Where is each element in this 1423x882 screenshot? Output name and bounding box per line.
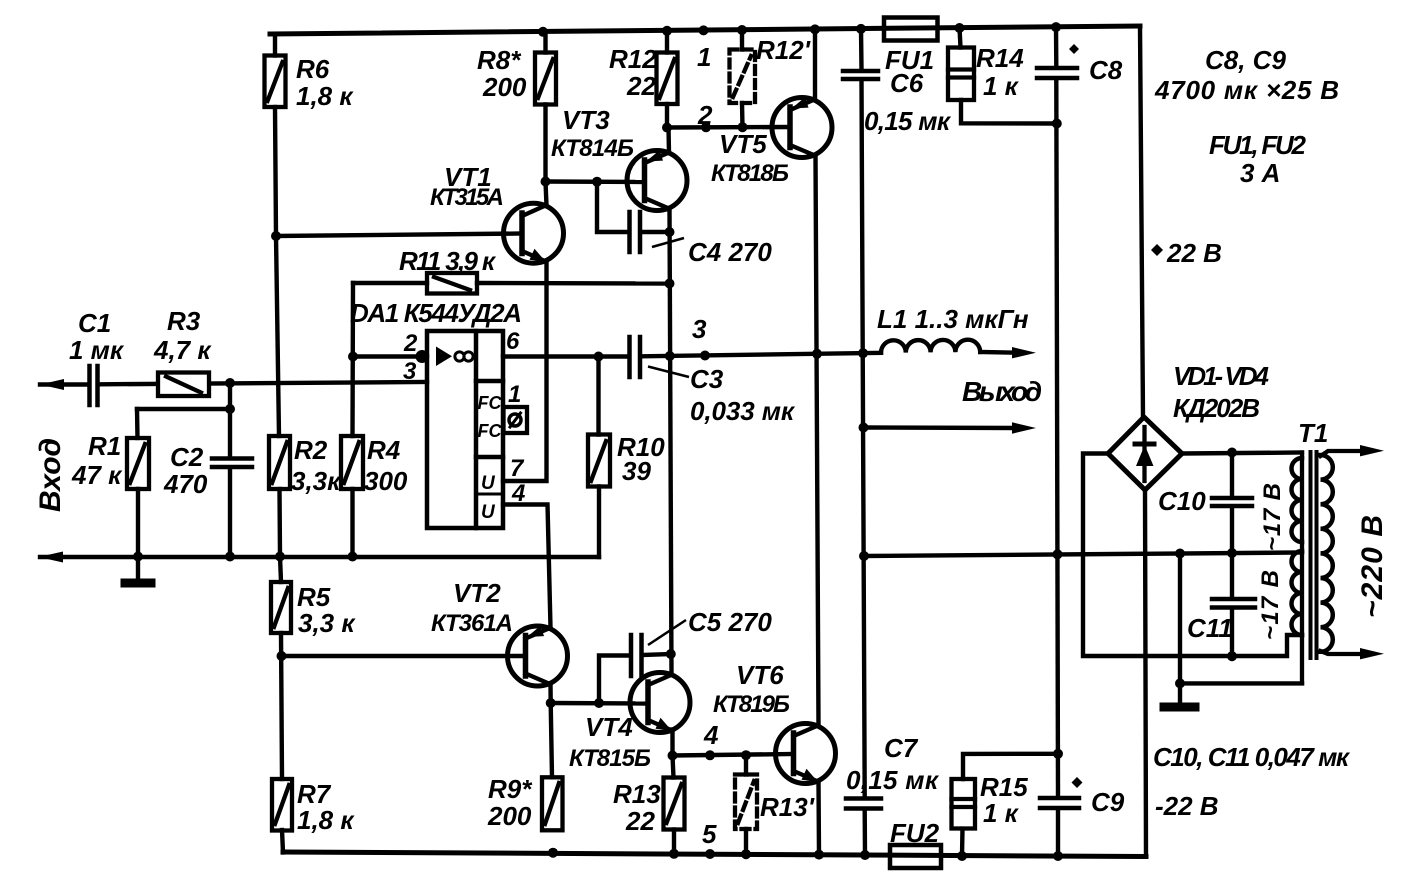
wire DA1 pin2 line — [353, 354, 427, 358]
transistor VT2 — [508, 626, 568, 686]
wire DA1 pin7 to VT1 emitter — [503, 262, 547, 481]
svg-text:R13: R13 — [613, 779, 661, 809]
svg-text:VD1- VD4: VD1- VD4 — [1173, 361, 1270, 391]
wire bridge bottom to -22V bottom rail corner — [1145, 490, 1146, 857]
svg-text:3 А: 3 А — [1240, 158, 1280, 188]
transistor VT1 — [504, 203, 564, 263]
svg-text:4700 мк ×25 В: 4700 мк ×25 В — [1154, 75, 1339, 105]
svg-text:39: 39 — [622, 456, 651, 486]
transformer T1 primary winding 220V — [1321, 455, 1333, 652]
svg-text:КТ814Б: КТ814Б — [551, 135, 634, 162]
junction dots VT4 base node — [546, 698, 556, 708]
svg-text:1: 1 — [508, 381, 521, 408]
svg-text:FU2: FU2 — [890, 818, 940, 848]
svg-text:C1: C1 — [78, 308, 111, 338]
op-amp DA1 box — [427, 331, 503, 528]
resistor R14 — [948, 48, 974, 101]
wire bridge right corner to secondary top — [1182, 453, 1302, 454]
wire VT3 collector to VT4 collector vertical — [670, 209, 672, 675]
wire R1 branch line — [137, 407, 230, 411]
resistor R10 — [588, 435, 610, 487]
capacitor C2 — [212, 459, 252, 468]
junction dots output line — [594, 352, 604, 362]
resistor R15 — [952, 779, 976, 829]
resistor R9 — [542, 777, 563, 830]
svg-text:U: U — [481, 473, 496, 494]
wire primary top lead — [1321, 451, 1363, 456]
svg-text:-22 В: -22 В — [1155, 791, 1219, 821]
wire C7 bottom stub to rail — [863, 811, 868, 856]
resistor R1 — [127, 438, 149, 489]
svg-text:R6: R6 — [296, 54, 330, 84]
junction dot input node — [225, 378, 235, 388]
svg-text:22: 22 — [625, 806, 655, 836]
svg-text:C11: C11 — [1187, 613, 1233, 643]
wire R8 top stub — [543, 32, 547, 53]
svg-text:КТ819Б: КТ819Б — [713, 691, 790, 718]
wire node 2 line to VT5 base — [667, 125, 790, 130]
transformer T1 secondary winding upper ~17V — [1292, 458, 1303, 542]
transformer T1 core — [1311, 452, 1317, 658]
svg-text:C3: C3 — [690, 364, 724, 394]
capacitor C6 — [843, 71, 878, 79]
arrow input terminal — [40, 379, 64, 390]
junction dot ground branch — [1175, 678, 1185, 688]
svg-text:1 к: 1 к — [983, 71, 1020, 101]
svg-text:FC: FC — [478, 393, 503, 413]
wire ground line to winding spine — [1180, 681, 1302, 685]
wire bottom -22V rail — [283, 852, 1146, 857]
wire R13' bottom stub — [744, 829, 748, 854]
svg-text:2: 2 — [403, 330, 418, 357]
capacitor C3 — [630, 337, 641, 377]
junction dot C4 right — [665, 227, 675, 237]
capacitor C10 — [1212, 498, 1252, 506]
wire output line C3 to L1 — [642, 353, 881, 357]
wire R11 left vertical to R4 — [350, 283, 355, 436]
wire output return arrow line — [864, 425, 1014, 430]
wire C5 branch left — [599, 656, 627, 704]
wire input node down to C2 — [228, 383, 232, 457]
capacitor C11 — [1212, 599, 1255, 608]
svg-text:VT3: VT3 — [562, 105, 610, 135]
wire L1 to output arrow — [980, 350, 1014, 355]
wire R4 bottom stub — [350, 489, 354, 557]
junction dot VT2 base node — [277, 651, 287, 661]
svg-text:3: 3 — [692, 314, 707, 344]
capacitor C9 (electrolytic) — [1040, 798, 1079, 808]
resistor R3 — [158, 373, 209, 397]
wire R5 to R7 vertical with VT2 base node — [281, 633, 282, 779]
wire VT1 base line — [276, 234, 522, 237]
svg-text:470: 470 — [163, 469, 208, 499]
svg-text:5: 5 — [702, 819, 717, 849]
junction dots mid line right — [859, 551, 869, 561]
svg-text:C2: C2 — [170, 442, 204, 472]
resistor R11 — [427, 273, 477, 294]
op-amp DA1 pin1 sub-box — [504, 407, 528, 433]
resistor R12 — [657, 53, 678, 105]
transistor VT3 — [627, 150, 687, 210]
svg-text:R4: R4 — [367, 435, 401, 465]
svg-text:C7: C7 — [884, 733, 919, 763]
svg-text:1,8 к: 1,8 к — [296, 81, 354, 111]
svg-text:VT4: VT4 — [585, 712, 633, 742]
svg-text:КТ818Б: КТ818Б — [711, 160, 789, 187]
wire VT3 base line — [546, 179, 645, 184]
svg-text:FU1, FU2: FU1, FU2 — [1209, 130, 1307, 160]
svg-text:R3: R3 — [167, 306, 201, 336]
leader line C3 — [648, 367, 689, 378]
svg-text:КТ315А: КТ315А — [430, 184, 504, 211]
wire R15 bottom stub — [960, 829, 965, 856]
junction dot VT1 base — [271, 231, 281, 241]
wire R5 top stub — [280, 557, 281, 583]
transistor VT6 — [776, 724, 836, 784]
wire R2 bottom stub — [277, 489, 282, 557]
wire C10 C11 vertical lower — [1230, 610, 1234, 657]
svg-text:200: 200 — [487, 801, 532, 831]
junction dots pin2 line — [348, 352, 358, 362]
svg-text:C10, C11 0,047 мк: C10, C11 0,047 мк — [1153, 742, 1351, 772]
plus mark C8 — [1069, 44, 1079, 54]
resistor R7 — [272, 779, 292, 831]
wire R13 top stub — [673, 756, 674, 778]
wire VT5 emitter to rail — [813, 29, 817, 99]
wire R1 bottom stub — [136, 489, 140, 557]
leader line C5 — [648, 620, 686, 645]
junction dots top rail — [538, 27, 548, 37]
svg-text:22: 22 — [626, 71, 656, 101]
svg-text:R1: R1 — [88, 431, 121, 461]
svg-text:0,15 мк: 0,15 мк — [846, 765, 940, 795]
svg-text:300: 300 — [364, 466, 408, 496]
wire input line C1 to DA1 pin3 — [101, 382, 427, 384]
wire VT4 emitter to node 4 — [670, 730, 674, 756]
wire C8 C9 vertical through mid line — [1056, 80, 1058, 796]
wire C2 bottom to ground line — [228, 469, 232, 557]
junction dots bottom rail — [548, 848, 558, 858]
wire C6 C7 vertical through output nodes — [862, 81, 865, 797]
svg-text:C5 270: C5 270 — [688, 607, 772, 637]
junction dot R14 C8 — [1052, 119, 1062, 129]
svg-text:7: 7 — [510, 455, 525, 482]
resistor R5 — [271, 582, 291, 633]
capacitor C8 (electrolytic) — [1037, 68, 1077, 78]
svg-text:47 к: 47 к — [71, 460, 123, 490]
wire C10 C11 vertical middle — [1230, 508, 1234, 597]
resistor R6 — [265, 56, 286, 108]
svg-text:R9*: R9* — [488, 774, 533, 804]
arrow output L1 — [1012, 347, 1036, 358]
junction dots node 2 line — [662, 123, 672, 133]
wire R8 bottom to VT3 base node — [543, 105, 547, 182]
svg-text:22 В: 22 В — [1166, 238, 1222, 268]
svg-text:C10: C10 — [1158, 486, 1206, 516]
svg-text:1: 1 — [697, 42, 711, 72]
resistor R12' (dashed optional) — [730, 50, 756, 104]
svg-text:R13': R13' — [760, 792, 815, 822]
ground symbol under R1 — [125, 579, 151, 588]
svg-text:4: 4 — [703, 720, 719, 750]
svg-text:C4 270: C4 270 — [688, 237, 772, 267]
wire input line left of C1 — [40, 382, 87, 386]
fuse FU1 — [884, 18, 938, 41]
svg-text:0,15 мк: 0,15 мк — [864, 106, 952, 136]
svg-text:L1 1..3 мкГн: L1 1..3 мкГн — [877, 304, 1029, 334]
svg-text:C8, C9: C8, C9 — [1205, 45, 1286, 75]
wire R15 top L to C9 line — [963, 754, 1058, 779]
wire R14 bottom L to C8 line — [961, 100, 1057, 124]
op-amp DA1 amplifier symbol — [436, 347, 473, 367]
svg-text:200: 200 — [482, 72, 527, 102]
wire C8 top stub from rail — [1054, 27, 1059, 66]
wire DA1 pin4 to VT2 emitter — [503, 505, 551, 628]
svg-text:1 к: 1 к — [983, 798, 1020, 828]
svg-text:DA1 К544УД2А: DA1 К544УД2А — [350, 298, 522, 328]
svg-text:2: 2 — [697, 100, 713, 130]
svg-text:С6: С6 — [890, 68, 924, 98]
svg-text:Выход: Выход — [962, 376, 1042, 407]
wire VT6 emitter to bottom rail — [816, 782, 821, 855]
capacitor C4 — [630, 212, 641, 252]
svg-text:C8: C8 — [1089, 55, 1123, 85]
wire R6 bottom to VT1 base node — [275, 107, 276, 236]
wire R12 top stub — [665, 31, 669, 53]
svg-text:3,3 к: 3,3 к — [298, 608, 356, 638]
svg-text:R12: R12 — [609, 44, 657, 74]
resistor R2 — [269, 436, 290, 489]
wire mid ground line left — [40, 555, 599, 559]
wire R9 top stub — [551, 703, 552, 777]
wire VT2 collector to VT4 base node — [548, 685, 553, 704]
junction dot R11 right — [665, 279, 675, 289]
resistor R13 — [664, 778, 685, 830]
wire R10 top stub — [596, 357, 600, 435]
wire R12' top stub — [740, 30, 744, 50]
arrow 220V top — [1360, 445, 1384, 456]
ground symbol near transformer — [1164, 703, 1195, 712]
wire R14 top stub — [960, 28, 961, 48]
transistor VT4 — [630, 673, 690, 733]
svg-text:6: 6 — [506, 328, 520, 355]
wire bridge left corner loop to secondary bottom — [1083, 454, 1302, 657]
arrow 220V bottom — [1360, 648, 1384, 659]
wire C9 bottom stub to rail — [1056, 810, 1060, 856]
resistor R4 — [341, 436, 363, 489]
svg-text:R14: R14 — [976, 43, 1024, 73]
junction dots VT3 base line — [541, 177, 551, 187]
svg-text:~220 В: ~220 В — [1356, 515, 1389, 618]
wire R1 top stub — [135, 409, 140, 438]
svg-text:3: 3 — [403, 358, 417, 385]
wire R6 top stub — [273, 34, 277, 56]
svg-text:R2: R2 — [294, 435, 328, 465]
svg-text:VT6: VT6 — [736, 660, 784, 690]
transformer T1 secondary spine — [1300, 453, 1304, 684]
inductor L1 — [881, 340, 980, 353]
diode bridge VD1-VD4 — [1108, 417, 1182, 490]
wire VT4 base line — [551, 701, 648, 706]
svg-text:4: 4 — [511, 480, 525, 507]
wire DA1 pin6 output to C3 — [503, 354, 626, 358]
diode symbol inside bridge — [1135, 427, 1154, 481]
junction dot R1 branch — [225, 404, 235, 414]
svg-text:Вход: Вход — [34, 438, 67, 512]
junction dot C10 top — [1227, 448, 1237, 458]
capacitor C7 — [846, 799, 881, 809]
svg-text:КТ815Б: КТ815Б — [569, 745, 651, 772]
arrow ground terminal left — [39, 552, 64, 563]
label +22V — [1151, 244, 1163, 256]
wire R11 right leg to collector line — [477, 281, 670, 286]
capacitor C5 — [631, 635, 642, 676]
svg-text:0,033 мк: 0,033 мк — [690, 396, 796, 426]
svg-text:R12': R12' — [756, 35, 811, 65]
junction dot R15 C9 — [1053, 749, 1063, 759]
wire C4 branch right — [642, 230, 670, 234]
svg-text:КТ361А: КТ361А — [431, 610, 513, 637]
svg-text:R8*: R8* — [477, 45, 522, 75]
wire C6 top stub from rail — [859, 29, 864, 69]
junction dots mid line left — [133, 552, 143, 562]
wire top +22V rail — [270, 26, 1140, 34]
svg-text:VT5: VT5 — [719, 129, 767, 159]
wire VT3 emitter stub — [666, 128, 671, 154]
wire VT5 collector to VT6 collector vertical — [816, 157, 819, 726]
svg-text:C9: C9 — [1091, 787, 1125, 817]
wire R11 left leg — [353, 281, 427, 285]
resistor R13' (dashed optional) — [735, 775, 757, 830]
wire node 4 line to VT6 base — [673, 754, 794, 756]
svg-text:1 мк: 1 мк — [69, 335, 125, 365]
leader line C4 — [652, 238, 684, 247]
transistor VT5 — [772, 97, 832, 157]
svg-text:3,3к: 3,3к — [291, 466, 342, 496]
wire C4 branch left — [597, 182, 626, 232]
wire VT1 base node down to R2 — [276, 236, 279, 436]
fuse FU2 — [890, 845, 941, 868]
resistor R8 — [535, 53, 556, 105]
wire R12 bottom to node 2 — [665, 104, 669, 128]
wire ground stub under R1 — [136, 557, 140, 579]
svg-text:~17 В: ~17 В — [1257, 570, 1284, 640]
wire mid ground line right (to transformer center tap) — [864, 553, 1302, 557]
junction dot C5 right — [666, 649, 676, 659]
wire R12' bottom stub — [740, 103, 745, 127]
transformer T1 secondary winding lower ~17V — [1292, 551, 1303, 635]
wire C10 C11 vertical upper — [1230, 453, 1234, 497]
svg-text:1,8 к: 1,8 к — [297, 805, 355, 835]
svg-text:R11 3,9 к: R11 3,9 к — [399, 246, 497, 276]
svg-text:T1: T1 — [1298, 418, 1328, 448]
arrow output return — [1012, 422, 1036, 433]
svg-text:КД202В: КД202В — [1173, 393, 1260, 423]
wire R10 bottom riser — [597, 487, 601, 558]
capacitor C1 — [90, 366, 98, 405]
wire R7 bottom stub — [282, 830, 283, 853]
wire VT1 collector stub — [546, 182, 547, 206]
junction dot C11 bottom — [1227, 651, 1237, 661]
svg-text:VT2: VT2 — [453, 578, 501, 608]
junction dot return line — [859, 423, 869, 433]
wire R13' top stub — [744, 755, 748, 774]
svg-text:FC: FC — [478, 421, 503, 441]
svg-text:~17 В: ~17 В — [1259, 483, 1286, 551]
wire right +22V drop to bridge — [1140, 26, 1143, 417]
wire R13 bottom stub — [672, 830, 676, 854]
svg-text:U: U — [481, 502, 496, 523]
wire C5 branch right — [644, 654, 671, 655]
wire VT2 base line — [282, 654, 526, 658]
svg-text:4,7 к: 4,7 к — [153, 335, 212, 365]
wire ground branch from mid line — [1178, 554, 1182, 702]
junction dots node 4 line — [668, 751, 678, 761]
plus mark C9 — [1072, 777, 1083, 788]
wire primary bottom lead — [1321, 651, 1363, 654]
